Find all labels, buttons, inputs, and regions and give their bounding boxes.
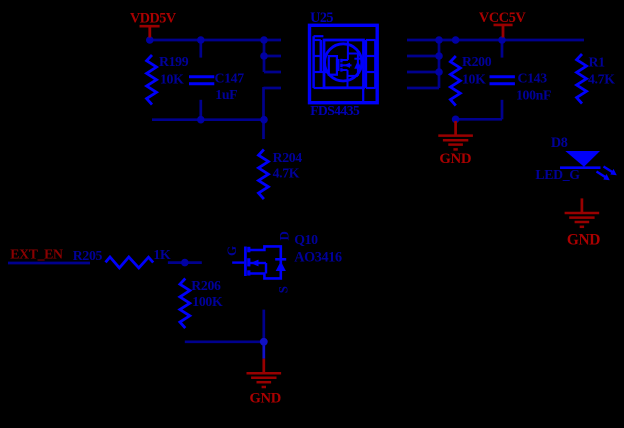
- svg-text:100nF: 100nF: [516, 87, 551, 102]
- svg-text:LED_G: LED_G: [535, 167, 580, 182]
- svg-text:G: G: [224, 246, 239, 256]
- svg-text:D: D: [276, 231, 291, 240]
- svg-text:VDD5V: VDD5V: [130, 11, 177, 27]
- svg-text:D8: D8: [551, 135, 568, 151]
- svg-text:GND: GND: [567, 232, 600, 249]
- svg-text:R206: R206: [191, 278, 221, 293]
- svg-text:C143: C143: [518, 71, 548, 86]
- svg-text:R199: R199: [159, 54, 189, 69]
- svg-text:FDS4435: FDS4435: [310, 103, 360, 118]
- svg-text:1K: 1K: [153, 247, 171, 262]
- svg-text:S: S: [276, 286, 291, 293]
- svg-text:R204: R204: [273, 150, 303, 165]
- svg-text:Q10: Q10: [294, 232, 318, 247]
- svg-text:100K: 100K: [192, 294, 223, 309]
- svg-text:4.7K: 4.7K: [588, 71, 615, 86]
- svg-text:R1: R1: [589, 54, 606, 69]
- svg-text:EXT_EN: EXT_EN: [10, 247, 63, 262]
- svg-text:1uF: 1uF: [215, 87, 237, 102]
- svg-text:R205: R205: [73, 248, 103, 263]
- svg-text:10K: 10K: [160, 71, 184, 86]
- svg-text:AO3416: AO3416: [294, 250, 342, 266]
- svg-text:C147: C147: [215, 70, 245, 85]
- svg-text:U25: U25: [310, 10, 333, 26]
- svg-text:VCC5V: VCC5V: [479, 10, 527, 26]
- svg-text:10K: 10K: [462, 72, 486, 87]
- svg-text:GND: GND: [250, 390, 281, 406]
- svg-text:R200: R200: [462, 54, 492, 69]
- svg-text:4.7K: 4.7K: [273, 166, 300, 181]
- svg-text:GND: GND: [439, 151, 471, 167]
